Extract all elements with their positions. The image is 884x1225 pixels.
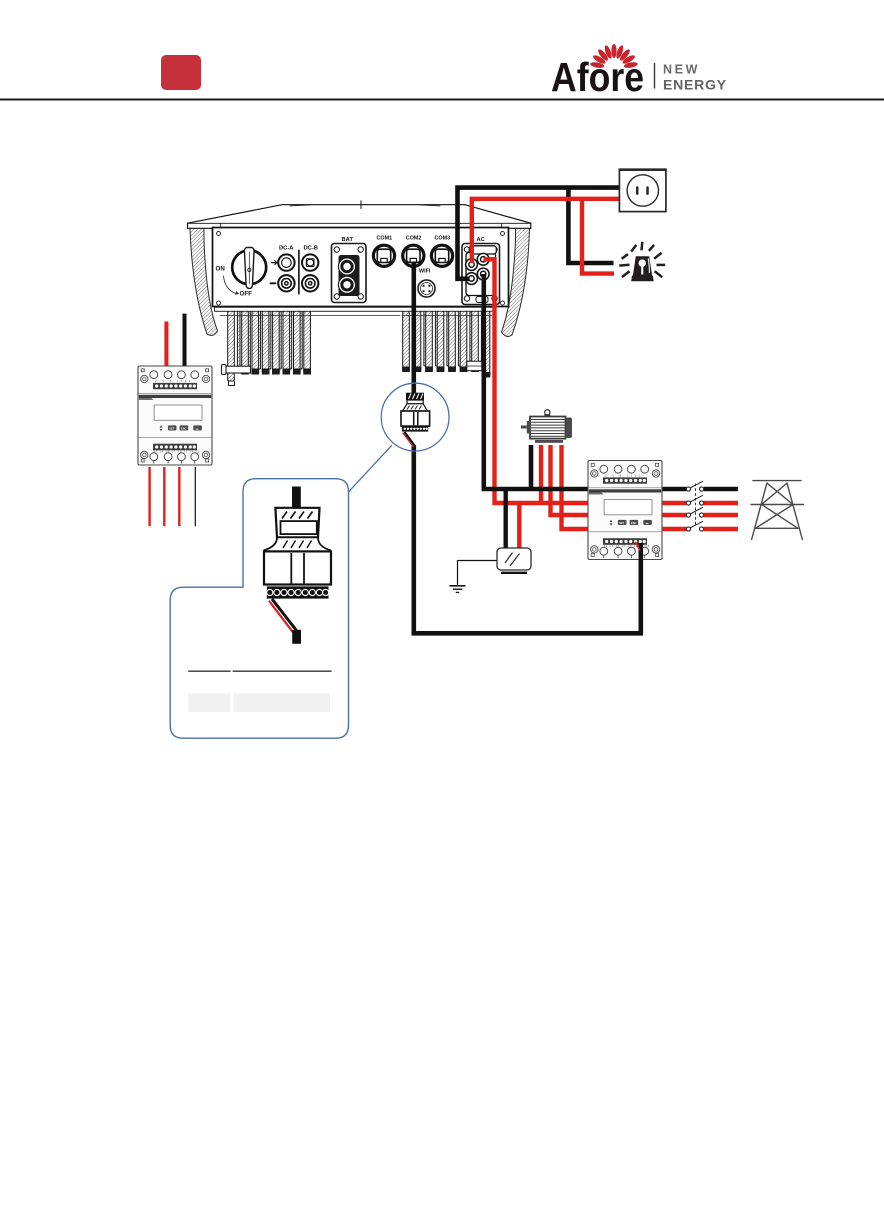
svg-text:COM3: COM3 [435, 236, 451, 242]
svg-text:BAT: BAT [342, 237, 354, 243]
svg-text:DC-A: DC-A [279, 246, 294, 252]
svg-text:COM2: COM2 [406, 236, 422, 242]
svg-text:OFF: OFF [240, 291, 253, 298]
svg-text:DC-B: DC-B [304, 246, 319, 252]
svg-text:NEW: NEW [663, 63, 700, 77]
svg-text:ENERGY: ENERGY [663, 77, 727, 93]
svg-text:COM1: COM1 [377, 236, 393, 242]
svg-text:WIFI: WIFI [419, 269, 431, 275]
svg-text:ON: ON [216, 266, 226, 273]
svg-text:AC: AC [477, 237, 486, 243]
